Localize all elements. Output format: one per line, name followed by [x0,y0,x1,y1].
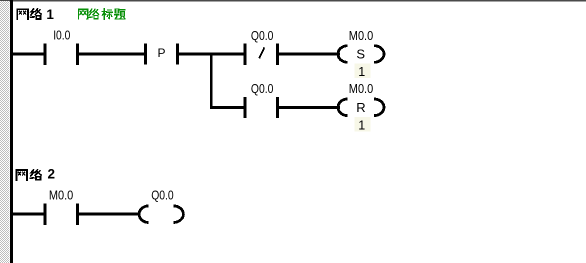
svg-text:Q0.0: Q0.0 [251,28,274,43]
wire: P to contact Q0.0 (through branch) [179,53,243,56]
wire: Q0.0 NC to S coil [279,53,340,56]
wire: M0.0 to coil Q0.0 [79,213,140,216]
wire: rail to contact M0.0 [13,213,43,216]
coil R M0.0 [338,99,384,116]
coil Q0.0 [139,206,183,223]
top border line [0,0,586,2]
network 2 label 网络 2 [16,170,41,180]
svg-text:I0.0: I0.0 [53,27,70,42]
svg-text:M0.0: M0.0 [349,28,373,43]
svg-text:M0.0: M0.0 [49,188,73,203]
left margin hatched strip [0,1,9,263]
coil S M0.0 [338,46,384,63]
operand highlight (R coil) [355,117,371,132]
branch bottom wire to second Q0.0 [210,106,244,109]
svg-text:1: 1 [358,65,365,79]
network 1 label 网络 1 [17,9,41,19]
svg-text:1: 1 [46,7,54,22]
contact I0.0 [43,44,79,65]
wire: rail to contact I0.0 [13,53,43,56]
svg-text:R: R [356,100,365,115]
svg-text:S: S [356,47,365,62]
NC slash [259,47,264,58]
contact P (positive edge) [144,43,179,64]
branch vertical wire [210,53,213,109]
svg-text:Q0.0: Q0.0 [151,188,174,203]
svg-text:P: P [157,46,165,60]
wire: bottom Q0.0 to R coil [279,106,340,109]
contact Q0.0 (bottom) [243,97,279,118]
power rail (left bus bar) [10,0,13,263]
wire: I0.0 to P contact [79,53,144,56]
contact Q0.0 NC (top) [243,44,279,65]
operand highlight (S coil) [355,64,371,79]
svg-text:M0.0: M0.0 [349,81,373,96]
svg-text:Q0.0: Q0.0 [251,81,274,96]
svg-text:2: 2 [48,167,56,182]
network 1 title 网络标题 (green) [79,9,125,19]
svg-text:1: 1 [358,119,365,133]
contact M0.0 [43,204,79,225]
